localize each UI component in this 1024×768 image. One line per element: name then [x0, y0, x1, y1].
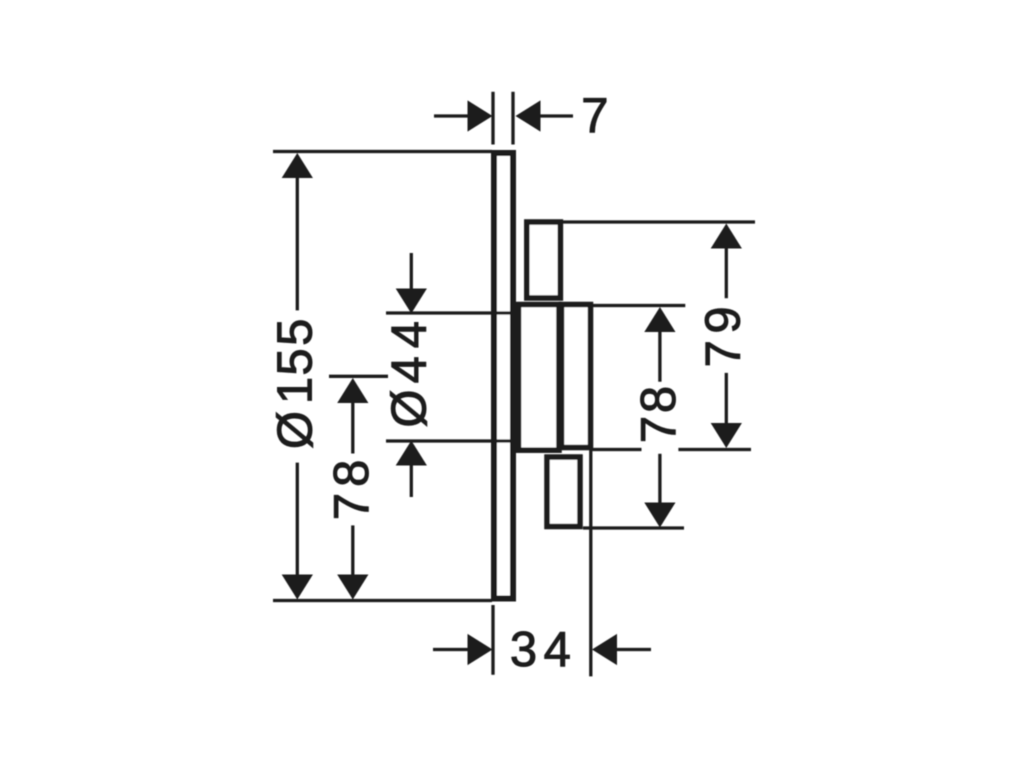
dimension Ø44: upper arrowhead (pointing down) — [396, 289, 427, 314]
svg-text:7: 7 — [325, 493, 379, 520]
dimension 78 left: upper dimension line — [351, 403, 354, 454]
svg-text:7: 7 — [632, 416, 686, 443]
dimension Ø44: bottom extension line — [386, 439, 514, 442]
svg-text:1: 1 — [269, 377, 323, 404]
dimension 79: top arrowhead — [711, 224, 742, 249]
svg-text:9: 9 — [697, 306, 751, 333]
dimension 34: left extension line — [491, 605, 494, 675]
dimension 78 right: top extension line — [593, 304, 685, 307]
dimension 34: left arrowhead — [468, 634, 493, 665]
dimension 34: left dimension line — [433, 648, 468, 651]
dimension 78 left: lower dimension line — [351, 525, 354, 574]
lower block (lower spindle housing) — [547, 457, 580, 527]
dimension 78 right: bottom extension line — [583, 526, 684, 529]
dimension 7: value label "7" — [581, 89, 608, 143]
dimension 7: left dimension line — [434, 114, 468, 117]
dimension 78 right: lower dimension line — [658, 454, 661, 503]
svg-text:5: 5 — [269, 348, 323, 375]
svg-text:Ø: Ø — [269, 411, 323, 449]
dimension 34: right arrowhead — [592, 634, 617, 665]
dimension 79: top extension line — [562, 220, 755, 223]
dimension 79: upper dimension line — [725, 249, 728, 299]
svg-text:4: 4 — [383, 321, 437, 348]
dimension Ø155: bottom extension line — [273, 599, 492, 602]
dimension Ø155: lower dimension line — [296, 463, 299, 575]
svg-text:4: 4 — [383, 356, 437, 383]
dimension 78 left: top arrowhead — [337, 378, 368, 403]
dimension 79: bottom extension line (right segment) — [678, 448, 751, 451]
dimension Ø44: top extension line — [386, 311, 514, 314]
dimension Ø155: upper dimension line — [296, 178, 299, 310]
svg-text:Ø: Ø — [383, 389, 437, 427]
svg-text:3: 3 — [510, 623, 537, 677]
dimension Ø155: top extension line — [273, 150, 492, 153]
dimension Ø155: value label "Ø155" (rotated) — [269, 319, 323, 449]
svg-text:4: 4 — [544, 623, 571, 677]
dimension Ø44: upper leader line — [410, 253, 413, 289]
svg-text:5: 5 — [269, 319, 323, 346]
dimension 7: right dimension line — [541, 114, 574, 117]
dimension Ø44: value label "Ø44" (rotated) — [383, 321, 437, 428]
dimension Ø155: bottom arrowhead — [282, 575, 313, 600]
dimension 79: value label "79" (rotated) — [697, 306, 751, 367]
dimension Ø155: top arrowhead — [282, 153, 313, 178]
upper block (stop-valve spindle housing) — [527, 222, 561, 298]
dimension Ø44: lower arrowhead (pointing up) — [396, 441, 427, 466]
middle sleeve (Ø44 cartridge sleeve) — [519, 305, 560, 451]
dimension 78 left: bottom arrowhead — [337, 575, 368, 600]
dimension 7: left extension line — [491, 92, 494, 145]
wall plate (side view, Ø155 escutcheon) — [494, 153, 513, 599]
dimension 7: right extension line — [511, 92, 514, 145]
dimension 78 right: value label "78" (rotated) — [632, 386, 686, 443]
dimension 34: right dimension line — [617, 648, 651, 651]
svg-text:7: 7 — [697, 340, 751, 367]
dimension 34: value label "34" — [510, 623, 571, 677]
svg-text:8: 8 — [325, 460, 379, 487]
dimension 79: lower dimension line — [725, 373, 728, 423]
dimension 78 left: top boundary tick line — [329, 375, 388, 378]
svg-text:8: 8 — [632, 386, 686, 413]
dimension 78 right: upper dimension line — [658, 332, 661, 382]
dimension 79: bottom arrowhead — [711, 423, 742, 448]
dimension 78 right: bottom arrowhead — [644, 503, 675, 528]
dimension 34: right extension line — [589, 450, 592, 676]
middle right section (function block) — [562, 305, 591, 448]
dimension 78 right: top arrowhead — [644, 307, 675, 332]
dimension 78 left: value label "78" (rotated) — [325, 460, 379, 520]
dimension 7: left arrowhead — [468, 100, 493, 131]
svg-text:7: 7 — [581, 89, 608, 143]
dimension 79: bottom extension line (left segment) — [591, 448, 642, 451]
dimension 7: right arrowhead — [516, 100, 541, 131]
dimension Ø44: lower leader line — [410, 466, 413, 498]
